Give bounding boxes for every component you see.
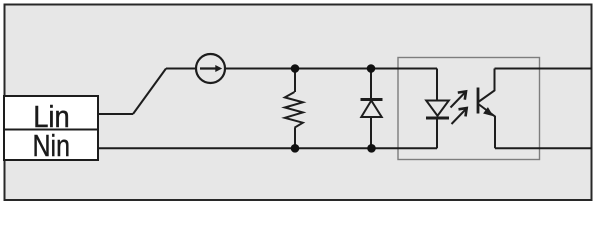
- LED of optocoupler: [426, 69, 449, 149]
- diode D1: [361, 69, 383, 149]
- node bottom diode: [367, 144, 376, 153]
- light emission arrow 1: [451, 91, 467, 107]
- current source U2: [196, 54, 225, 83]
- light emission arrow 2: [452, 108, 467, 124]
- wire bottom Nin to LED cathode corner: [98, 147, 437, 149]
- resistor R1: [285, 69, 303, 149]
- terminal box Nin: [4, 130, 98, 161]
- phototransistor Q1: [478, 69, 495, 149]
- terminal box Lin: [4, 96, 98, 130]
- node top diode: [367, 64, 376, 73]
- svg-text:Nin: Nin: [33, 128, 71, 163]
- optocoupler body U1: [398, 58, 540, 160]
- node top resistor: [291, 64, 300, 73]
- wire top left to current source: [166, 68, 197, 70]
- wire diagonal rise: [133, 69, 166, 115]
- node bottom resistor: [291, 144, 300, 153]
- wire Lin to diagonal: [98, 113, 133, 115]
- wire top right collector to edge: [495, 68, 593, 70]
- wire current source to LED corner: [225, 68, 438, 70]
- wire bottom right emitter to edge: [495, 147, 592, 149]
